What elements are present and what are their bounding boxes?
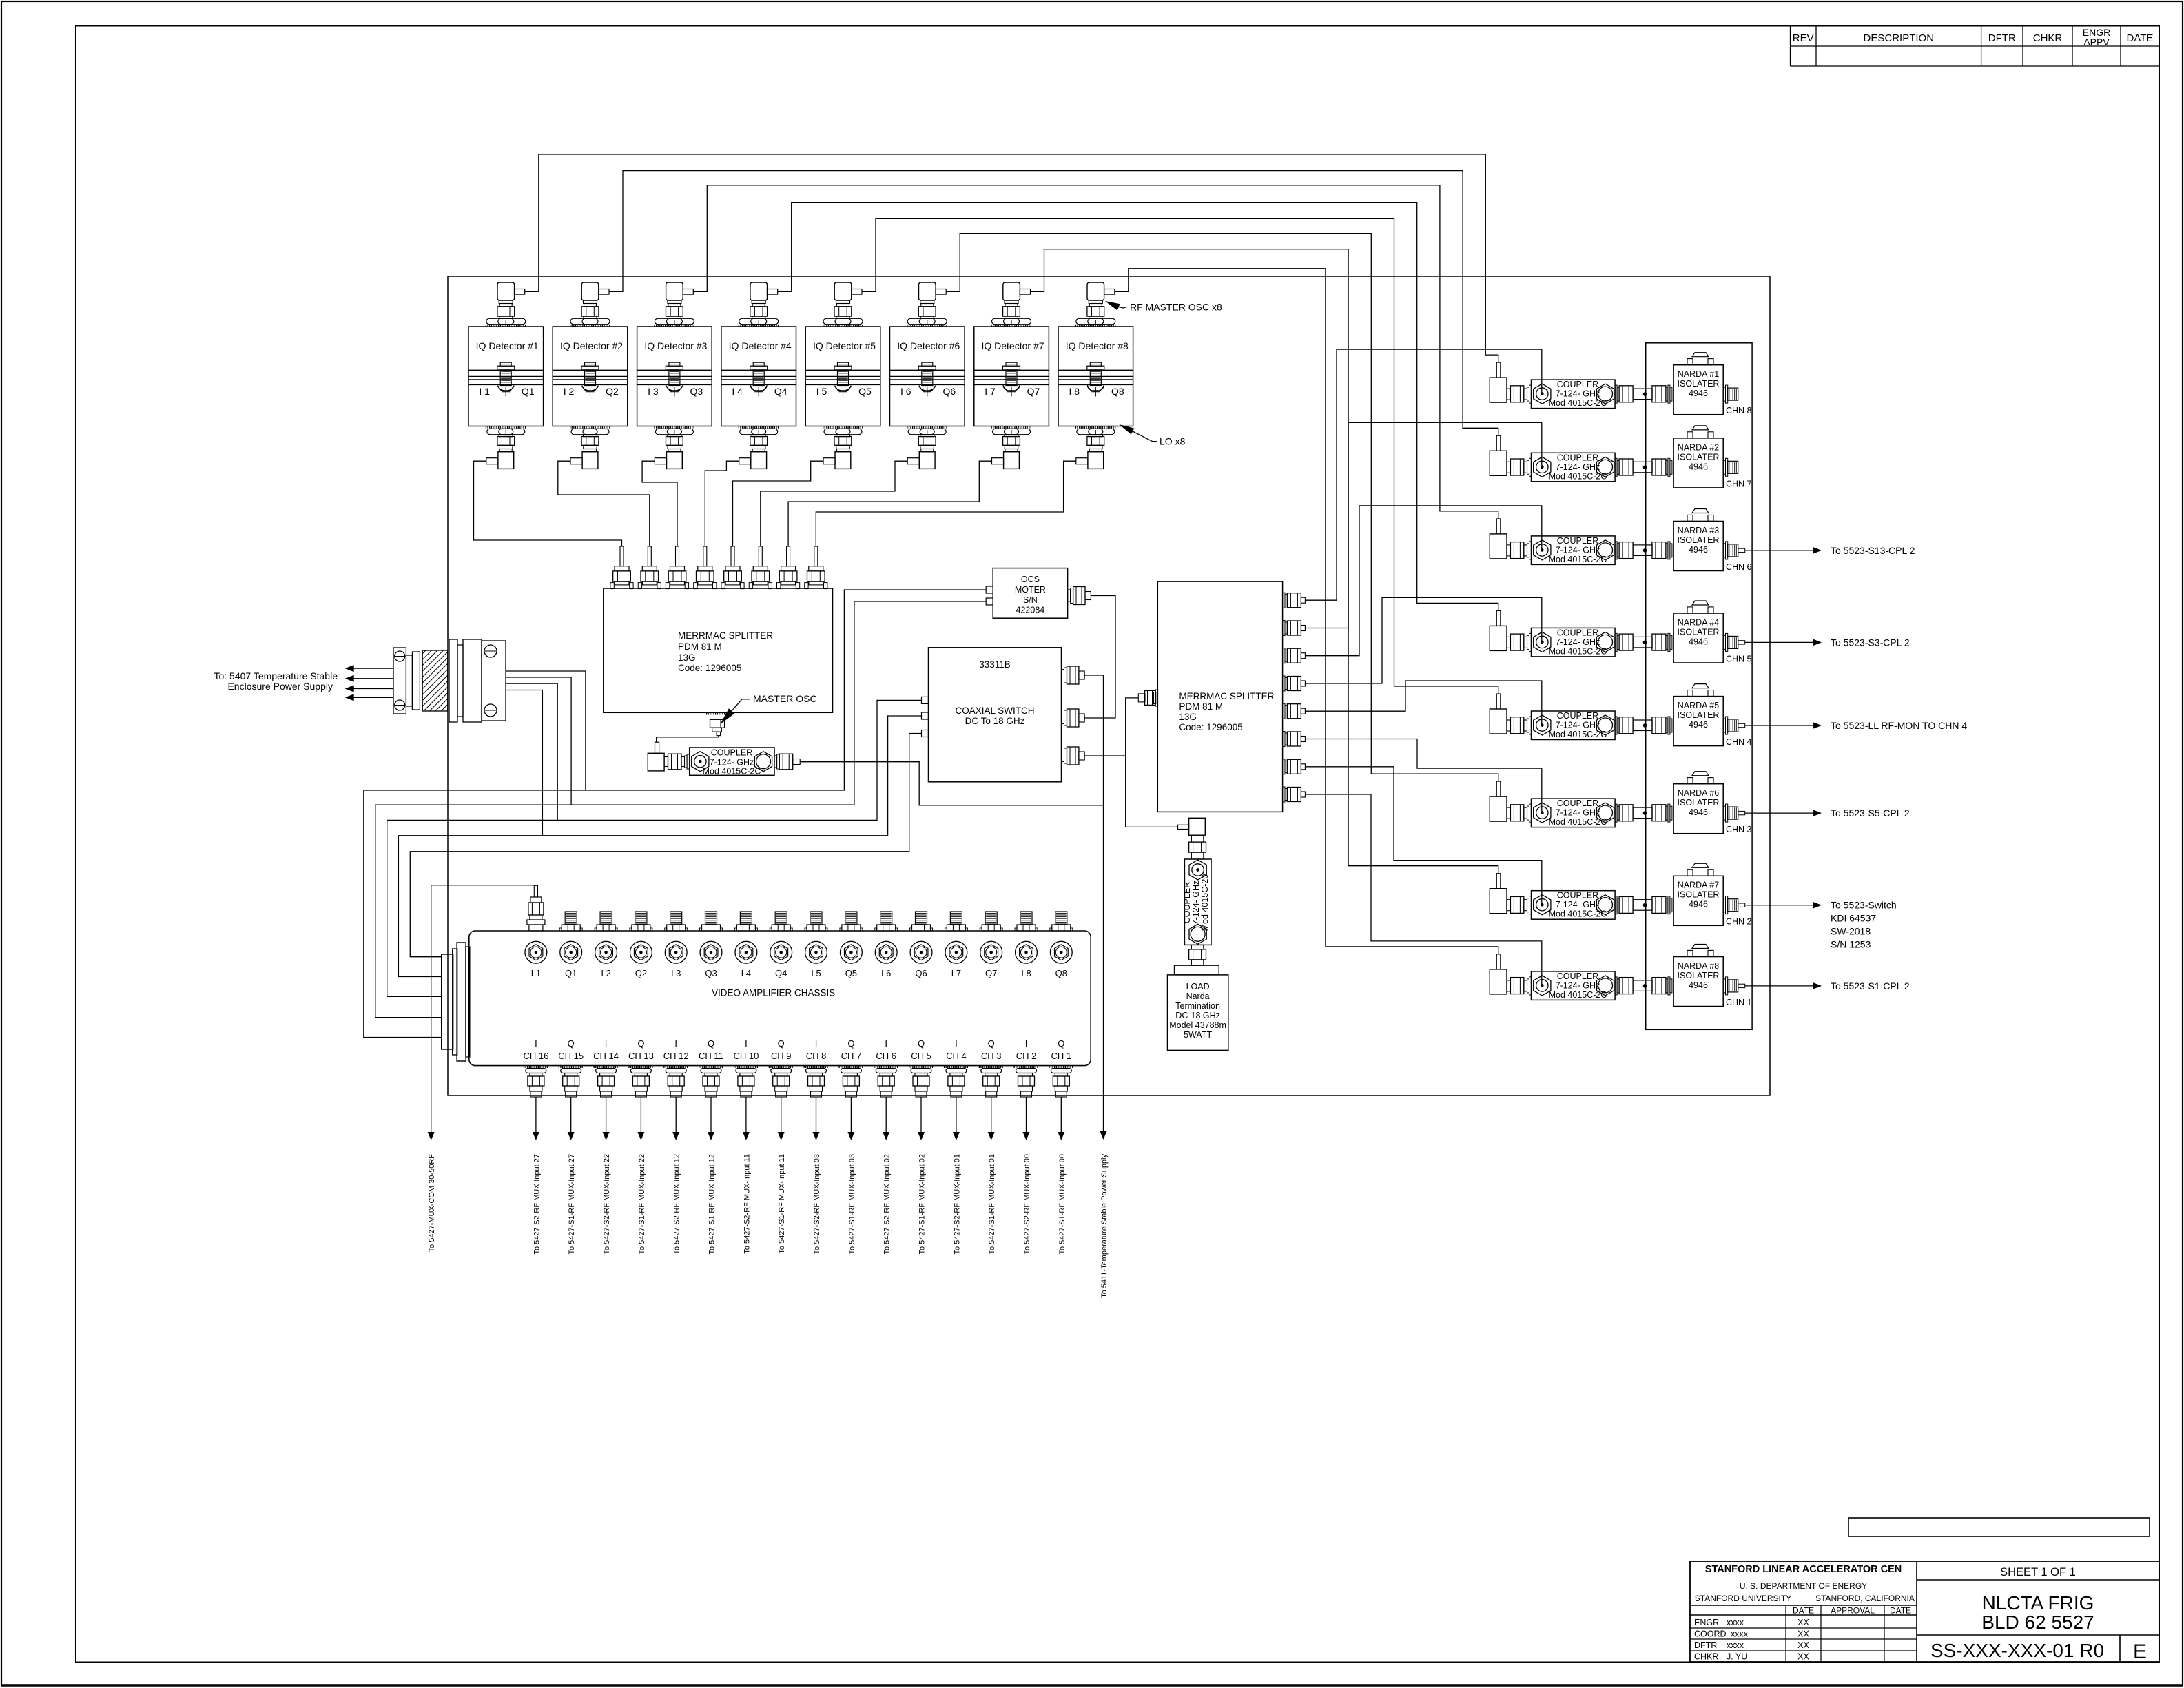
wire LO detector 5 to splitter input 5 [733, 461, 824, 546]
svg-text:NARDA #8: NARDA #8 [1678, 961, 1719, 971]
svg-text:Mod 4015C-2C: Mod 4015C-2C [1549, 471, 1607, 481]
IQ Detector #2 bottom LO connector [570, 426, 610, 429]
svg-text:PDM 81 M: PDM 81 M [1179, 701, 1223, 712]
IQ Detector #1 bottom LO connector [486, 426, 526, 429]
svg-text:COUPLER: COUPLER [1557, 971, 1598, 981]
wire chassis output to MUX arrow 9 [816, 1097, 817, 1132]
svg-text:7-124- GHz: 7-124- GHz [1191, 881, 1201, 925]
chassis bottom connector CH 16 [524, 1066, 548, 1068]
splitter input connector 1 [620, 546, 624, 566]
svg-text:5WATT: 5WATT [1184, 1030, 1212, 1040]
chassis BNC I 2 [595, 941, 617, 963]
IQ Detector #5 tuning bolt [838, 362, 849, 366]
svg-text:I 1: I 1 [479, 386, 490, 397]
IQ Detector #4 box [721, 327, 796, 426]
svg-text:Q6: Q6 [915, 968, 927, 978]
row 7 elbow connector [1496, 874, 1501, 889]
IQ Detector #2 tuning bolt [585, 362, 596, 366]
svg-text:CHN 2: CHN 2 [1726, 917, 1752, 927]
wire chassis output to MUX arrow 4 [640, 1097, 641, 1132]
wire I1 input to MUX COM arrow [431, 885, 536, 1132]
LO x8 callout [1120, 424, 1135, 434]
title block [1690, 1561, 2159, 1662]
svg-text:I: I [885, 1038, 887, 1049]
svg-text:MERRMAC SPLITTER: MERRMAC SPLITTER [1179, 691, 1274, 701]
svg-text:XX: XX [1797, 1640, 1809, 1650]
svg-text:7-124- GHz: 7-124- GHz [710, 758, 754, 768]
svg-text:I: I [955, 1038, 958, 1049]
svg-text:STANFORD, CALIFORNIA: STANFORD, CALIFORNIA [1815, 1594, 1915, 1603]
svg-text:S/N 1253: S/N 1253 [1831, 939, 1871, 950]
svg-text:COUPLER: COUPLER [1557, 711, 1598, 721]
5407 circular connector assembly [393, 648, 406, 714]
svg-text:To 5427-S2-RF MUX-Input 00: To 5427-S2-RF MUX-Input 00 [1023, 1154, 1031, 1255]
svg-text:IQ Detector #3: IQ Detector #3 [644, 340, 707, 351]
splitter input connector 3 [676, 546, 679, 566]
row 8 elbow connector [1496, 954, 1501, 969]
svg-text:7-124- GHz: 7-124- GHz [1556, 980, 1600, 990]
svg-text:I 6: I 6 [900, 386, 911, 397]
svg-text:DC-18 GHz: DC-18 GHz [1175, 1011, 1220, 1020]
svg-text:To 5427-S2-RF MUX-Input 27: To 5427-S2-RF MUX-Input 27 [533, 1154, 541, 1255]
svg-text:J. YU: J. YU [1727, 1652, 1747, 1662]
svg-text:To 5427-S2-RF MUX-Input 11: To 5427-S2-RF MUX-Input 11 [743, 1154, 751, 1254]
svg-text:MERRMAC SPLITTER: MERRMAC SPLITTER [678, 630, 773, 641]
svg-text:COUPLER: COUPLER [1557, 453, 1598, 462]
row 4 output wire and arrow [1738, 641, 1745, 644]
svg-text:7-124- GHz: 7-124- GHz [1556, 721, 1600, 730]
svg-text:VIDEO AMPLIFIER CHASSIS: VIDEO AMPLIFIER CHASSIS [712, 988, 835, 998]
svg-text:I 8: I 8 [1021, 968, 1031, 978]
svg-text:I: I [815, 1038, 818, 1049]
svg-text:CHN 3: CHN 3 [1726, 825, 1752, 834]
row 3 isolator output stub [1723, 544, 1725, 557]
chassis bottom connector CH 12 [663, 1066, 688, 1068]
monitor coupler body [1191, 835, 1203, 842]
NARDA #8 isolator [1673, 957, 1723, 1007]
svg-text:4946: 4946 [1689, 807, 1708, 817]
harness wire 2 [375, 601, 986, 1018]
svg-text:7-124- GHz: 7-124- GHz [1556, 637, 1600, 647]
svg-text:To 5427-S2-RF MUX-Input 03: To 5427-S2-RF MUX-Input 03 [813, 1154, 821, 1255]
chassis BNC Q2 [630, 941, 652, 963]
svg-text:SS-XXX-XXX-01 R0: SS-XXX-XXX-01 R0 [1930, 1640, 2104, 1661]
power connector wire 4 [506, 690, 542, 836]
svg-text:CHKR: CHKR [1694, 1652, 1718, 1662]
row 8 isolator output stub [1723, 979, 1725, 993]
svg-text:KDI 64537: KDI 64537 [1831, 913, 1876, 924]
svg-text:Q: Q [918, 1038, 925, 1049]
chassis bottom connector CH 13 [628, 1066, 653, 1068]
harness wire 4 [398, 716, 921, 977]
svg-text:Mod 4015C-2C: Mod 4015C-2C [1549, 646, 1607, 656]
svg-text:APPV: APPV [2083, 37, 2110, 48]
right splitter output connector 3 [1283, 648, 1285, 663]
svg-text:4946: 4946 [1689, 980, 1708, 990]
IQ Detector #3 box [637, 327, 712, 426]
svg-text:I 2: I 2 [601, 968, 610, 978]
wire LO detector 7 to splitter input 7 [788, 461, 991, 546]
svg-text:4946: 4946 [1689, 900, 1708, 909]
svg-text:LOAD: LOAD [1186, 982, 1210, 991]
svg-text:To 5427-S1-RF MUX-Input 02: To 5427-S1-RF MUX-Input 02 [918, 1154, 927, 1255]
wire master osc coupler output to junction [800, 762, 1103, 805]
svg-text:Mod 4015C-2C: Mod 4015C-2C [1549, 555, 1607, 564]
chassis BNC I 5 [805, 941, 827, 963]
chassis top connector 3 [600, 912, 612, 925]
svg-text:Narda: Narda [1186, 991, 1210, 1001]
narda isolator column box [1646, 343, 1752, 1030]
splitter master osc output connector [706, 713, 731, 715]
svg-text:DATE: DATE [1890, 1606, 1911, 1616]
right splitter output connector 8 [1283, 787, 1285, 802]
power supply arrow 4 [353, 697, 393, 698]
svg-text:COUPLER: COUPLER [1182, 882, 1192, 923]
svg-text:NARDA #3: NARDA #3 [1678, 526, 1719, 535]
svg-text:To 5427-S2-RF MUX-Input 22: To 5427-S2-RF MUX-Input 22 [603, 1154, 611, 1255]
IQ Detector #7 box [974, 327, 1049, 426]
chassis bottom connector CH 2 [1014, 1066, 1039, 1068]
wire chassis output to MUX arrow 6 [710, 1097, 712, 1132]
svg-text:CH 14: CH 14 [593, 1051, 619, 1061]
IQ Detector #8 box [1058, 327, 1133, 426]
svg-text:DC To 18 GHz: DC To 18 GHz [965, 716, 1025, 726]
chassis BNC Q4 [770, 941, 792, 963]
chassis bottom connector CH 8 [804, 1066, 829, 1068]
IQ Detector #7 top RF connector [1003, 282, 1020, 300]
svg-text:CH 3: CH 3 [981, 1051, 1002, 1061]
coax switch right connector 1 [1062, 670, 1064, 681]
row 4 isolator output stub [1723, 635, 1725, 649]
chassis top connector 16 [1055, 912, 1067, 925]
svg-text:CH 2: CH 2 [1016, 1051, 1037, 1061]
svg-text:Termination: Termination [1175, 1001, 1220, 1011]
chassis top connector 14 [985, 912, 997, 925]
svg-text:IQ Detector #6: IQ Detector #6 [897, 340, 960, 351]
svg-text:Q5: Q5 [858, 386, 872, 397]
svg-text:CHKR: CHKR [2033, 32, 2063, 44]
svg-text:Q: Q [637, 1038, 644, 1049]
svg-text:ENGR: ENGR [1694, 1618, 1719, 1627]
svg-text:To 5427-S2-RF MUX-Input 12: To 5427-S2-RF MUX-Input 12 [673, 1154, 681, 1255]
power connector wire 1 [506, 671, 586, 790]
wire LO detector 3 to splitter input 3 [642, 461, 677, 546]
row 1 isolator output stub [1723, 387, 1725, 401]
svg-text:I 3: I 3 [671, 968, 681, 978]
svg-text:Enclosure Power Supply: Enclosure Power Supply [227, 681, 333, 692]
svg-text:xxxx: xxxx [1727, 1618, 1744, 1627]
svg-text:To 5427-S1-RF MUX-Input 22: To 5427-S1-RF MUX-Input 22 [638, 1154, 646, 1255]
OCS MOTER left pin 2 [986, 598, 993, 605]
harness wire 1 [364, 590, 986, 1038]
svg-text:To 5411-Temperature Stable Pow: To 5411-Temperature Stable Power Supply [1100, 1154, 1109, 1298]
right splitter output connector 1 [1283, 593, 1285, 608]
chassis top connector 13 [950, 912, 962, 925]
svg-text:I: I [745, 1038, 748, 1049]
svg-text:LO x8: LO x8 [1160, 436, 1186, 447]
svg-text:4946: 4946 [1689, 462, 1708, 471]
svg-text:CH 15: CH 15 [558, 1051, 584, 1061]
right splitter output connector 5 [1283, 703, 1285, 719]
chassis side D connector [442, 954, 453, 1049]
svg-text:Q6: Q6 [942, 386, 956, 397]
svg-text:CH 1: CH 1 [1051, 1051, 1071, 1061]
svg-text:To 5523-Switch: To 5523-Switch [1831, 900, 1897, 911]
svg-text:CH 13: CH 13 [628, 1051, 654, 1061]
svg-text:STANFORD LINEAR ACCELERATOR CE: STANFORD LINEAR ACCELERATOR CEN [1705, 1564, 1902, 1575]
svg-text:DATE: DATE [1793, 1606, 1814, 1616]
svg-text:I 5: I 5 [816, 386, 827, 397]
wire splitter output 8 to coupler 8 input [1305, 794, 1541, 986]
chassis BNC I 3 [665, 941, 687, 963]
svg-text:DFTR: DFTR [1694, 1640, 1717, 1650]
row 6 elbow connector [1496, 781, 1501, 796]
chassis BNC Q6 [910, 941, 932, 963]
wire splitter output 7 to coupler 7 input [1305, 767, 1541, 905]
wire chassis output to MUX arrow 8 [781, 1097, 782, 1132]
svg-text:Mod 4015C-2C: Mod 4015C-2C [1549, 398, 1607, 408]
svg-text:To 5427-MUX-COM 30-50RF: To 5427-MUX-COM 30-50RF [428, 1154, 436, 1253]
IQ Detector #5 box [805, 327, 880, 426]
chassis top connector 4 [635, 912, 647, 925]
wire LO detector 2 to splitter input 2 [558, 461, 650, 546]
svg-text:Q1: Q1 [565, 968, 577, 978]
wire splitter output 5 to coupler 5 input [1305, 681, 1541, 725]
svg-text:DFTR: DFTR [1988, 32, 2016, 44]
COUPLER 7-124-GHz row 3 [1532, 536, 1616, 565]
svg-text:OCS: OCS [1021, 575, 1040, 584]
coax switch left pin 3 [922, 730, 929, 737]
COUPLER 7-124-GHz row 8 [1532, 971, 1616, 1000]
svg-text:CHN 8: CHN 8 [1726, 406, 1752, 415]
svg-text:CH 5: CH 5 [911, 1051, 931, 1061]
svg-text:To 5427-S1-RF MUX-Input 03: To 5427-S1-RF MUX-Input 03 [848, 1154, 856, 1255]
wire LO detector 4 to splitter input 4 [705, 461, 739, 546]
svg-text:S/N: S/N [1023, 595, 1038, 605]
svg-text:CH 9: CH 9 [771, 1051, 792, 1061]
wire chassis output to MUX arrow 15 [1026, 1097, 1027, 1132]
IQ Detector #7 bottom LO connector [991, 426, 1032, 429]
IQ Detector #5 top RF connector [834, 282, 852, 300]
svg-text:COUPLER: COUPLER [1557, 380, 1598, 389]
wire splitter output 2 to coupler 2 input [1305, 422, 1541, 628]
temperature stable enclosure boundary [448, 276, 1770, 1095]
svg-text:ISOLATER: ISOLATER [1678, 890, 1720, 900]
NARDA #4 isolator [1673, 613, 1723, 663]
svg-text:Q2: Q2 [606, 386, 619, 397]
chassis top connector 6 [705, 912, 717, 925]
svg-text:I 1: I 1 [531, 968, 541, 978]
revision table [1790, 26, 1791, 67]
svg-text:To 5427-S1-RF MUX-Input 11: To 5427-S1-RF MUX-Input 11 [778, 1154, 786, 1254]
power supply arrow 2 [353, 678, 393, 679]
chassis bottom connector CH 11 [699, 1066, 723, 1068]
chassis top connector 15 [1020, 912, 1032, 925]
coax switch left pin 1 [922, 697, 929, 703]
right splitter output connector 2 [1283, 621, 1285, 636]
svg-text:To 5427-S2-RF MUX-Input 01: To 5427-S2-RF MUX-Input 01 [953, 1154, 961, 1255]
wire LO detector 1 to splitter input 1 [474, 461, 622, 546]
svg-text:Mod 4015C-2C: Mod 4015C-2C [1549, 990, 1607, 1000]
COUPLER 7-124-GHz row 1 [1532, 380, 1616, 409]
svg-text:To 5523-S13-CPL 2: To 5523-S13-CPL 2 [1831, 545, 1915, 556]
svg-text:STANFORD UNIVERSITY: STANFORD UNIVERSITY [1695, 1594, 1791, 1603]
chassis top connector 2 [565, 912, 577, 925]
chassis bottom connector CH 6 [874, 1066, 898, 1068]
splitter input connector 6 [759, 546, 762, 566]
svg-text:E: E [2133, 1640, 2147, 1663]
approval table [1690, 1614, 1917, 1616]
wire chassis output to MUX arrow 11 [885, 1097, 887, 1132]
splitter input connector 2 [648, 546, 651, 566]
coax switch right connector 2 [1062, 712, 1064, 724]
harness wire 5 [410, 734, 921, 957]
svg-text:Q8: Q8 [1111, 386, 1124, 397]
IQ Detector #7 tuning bolt [1006, 362, 1017, 366]
svg-text:U. S. DEPARTMENT OF ENERGY: U. S. DEPARTMENT OF ENERGY [1740, 1581, 1867, 1591]
IQ Detector #3 top RF connector [666, 282, 683, 300]
svg-text:NARDA #2: NARDA #2 [1678, 442, 1719, 452]
svg-text:Q3: Q3 [690, 386, 703, 397]
svg-text:4946: 4946 [1689, 637, 1708, 646]
svg-text:ISOLATER: ISOLATER [1678, 535, 1720, 545]
IQ Detector #1 body split lines [468, 369, 544, 371]
row 2 coupler-isolator link [1615, 458, 1617, 476]
right splitter input connector [1138, 694, 1145, 702]
row 4 coupler-isolator link [1615, 633, 1617, 651]
NARDA #3 isolator [1673, 522, 1723, 571]
svg-text:XX: XX [1797, 1629, 1809, 1639]
svg-text:To 5427-S1-RF MUX-Input 00: To 5427-S1-RF MUX-Input 00 [1058, 1154, 1067, 1255]
master osc coupler box [690, 748, 774, 775]
row 3 coupler-isolator link [1615, 542, 1617, 559]
svg-text:PDM 81 M: PDM 81 M [678, 641, 722, 652]
svg-text:Q5: Q5 [845, 968, 857, 978]
row 5 elbow connector [1496, 694, 1501, 709]
svg-text:Q1: Q1 [522, 386, 535, 397]
svg-text:ISOLATER: ISOLATER [1678, 798, 1720, 807]
video amplifier chassis box [469, 931, 1091, 1066]
master osc coupler elbow connector [655, 742, 659, 753]
svg-text:4946: 4946 [1689, 389, 1708, 398]
master osc coupler output connector [774, 756, 777, 768]
row 7 output wire and arrow [1738, 903, 1745, 907]
row 5 output wire and arrow [1738, 723, 1745, 727]
svg-text:SW-2018: SW-2018 [1831, 926, 1871, 937]
row 2 elbow connector [1496, 435, 1501, 451]
To 5411 power supply arrow [1100, 1131, 1107, 1140]
IQ Detector #3 body split lines [637, 369, 712, 371]
wire OCS MOTER output to coax switch input 2 [1084, 596, 1115, 719]
svg-text:I: I [605, 1038, 608, 1049]
chassis bottom connector CH 7 [838, 1066, 863, 1068]
svg-text:SHEET 1 OF 1: SHEET 1 OF 1 [2000, 1566, 2076, 1578]
wire LO detector 8 to splitter input 8 [816, 461, 1076, 546]
svg-text:ISOLATER: ISOLATER [1678, 971, 1720, 980]
svg-text:422084: 422084 [1016, 606, 1045, 615]
svg-text:CHN 6: CHN 6 [1726, 562, 1752, 572]
svg-text:COORD: COORD [1694, 1629, 1727, 1639]
row 8 output wire and arrow [1738, 984, 1745, 987]
monitor coupler lower connector [1191, 945, 1203, 949]
coaxial switch 33311B box [929, 648, 1062, 782]
chassis I1 input connector with pin [534, 885, 537, 897]
svg-text:COUPLER: COUPLER [1557, 891, 1598, 900]
NARDA #5 isolator [1673, 697, 1723, 746]
svg-text:Mod 4015C-2C: Mod 4015C-2C [1549, 909, 1607, 919]
chassis top connector 12 [916, 912, 927, 925]
COUPLER 7-124-GHz row 4 [1532, 628, 1616, 657]
svg-text:I 8: I 8 [1069, 386, 1080, 397]
svg-text:IQ Detector #2: IQ Detector #2 [560, 340, 623, 351]
IQ Detector #1 top RF connector [497, 282, 515, 300]
row 3 elbow connector [1496, 519, 1501, 534]
IQ Detector #3 tuning bolt [669, 362, 680, 366]
svg-text:Code: 1296005: Code: 1296005 [1179, 722, 1242, 732]
svg-text:CHN 5: CHN 5 [1726, 654, 1752, 663]
svg-text:CH 7: CH 7 [841, 1051, 862, 1061]
harness wire 3 [387, 700, 922, 996]
IQ Detector #4 tuning bolt [753, 362, 764, 366]
chassis top connector 5 [670, 912, 682, 925]
monitor coupler elbow connector [1178, 825, 1189, 829]
row 7 coupler-isolator link [1615, 896, 1617, 914]
wire RF bus detector 4 to coupler row 4 [778, 203, 1498, 611]
coax switch left pin 2 [922, 712, 929, 719]
svg-text:CH 10: CH 10 [733, 1051, 759, 1061]
svg-text:REV: REV [1793, 32, 1814, 44]
chassis bottom connector CH 1 [1049, 1066, 1073, 1068]
wire chassis output to MUX arrow 7 [745, 1097, 747, 1132]
svg-text:COUPLER: COUPLER [1557, 628, 1598, 637]
svg-text:To 5427-S1-RF MUX-Input 01: To 5427-S1-RF MUX-Input 01 [988, 1154, 996, 1255]
chassis bottom connector CH 15 [559, 1066, 584, 1068]
svg-text:Q: Q [708, 1038, 714, 1049]
svg-text:CHN 1: CHN 1 [1726, 998, 1752, 1007]
svg-text:33311B: 33311B [979, 659, 1011, 670]
svg-text:CHN 7: CHN 7 [1726, 479, 1752, 488]
OCS MOTER left pin 1 [986, 586, 993, 593]
svg-text:Mod 4015C-20: Mod 4015C-20 [1200, 874, 1210, 932]
drawing number strip [1848, 1518, 2150, 1536]
IQ Detector #8 body split lines [1058, 369, 1133, 371]
row 8 coupler-isolator link [1615, 977, 1617, 995]
svg-text:IQ Detector #8: IQ Detector #8 [1066, 340, 1129, 351]
svg-text:ISOLATER: ISOLATER [1678, 627, 1720, 637]
wire RF bus detector 1 to coupler row 1 [525, 154, 1498, 362]
svg-text:IQ Detector #1: IQ Detector #1 [476, 340, 539, 351]
splitter input connector 4 [703, 546, 707, 566]
drawing number cell [1917, 1634, 2159, 1636]
power connector wire 3 [506, 683, 557, 820]
wire chassis output to MUX arrow 13 [956, 1097, 957, 1132]
svg-text:ISOLATER: ISOLATER [1678, 452, 1720, 462]
wire chassis output to MUX arrow 1 [535, 1097, 537, 1132]
IQ Detector #8 top RF connector [1087, 282, 1104, 300]
IQ Detector #6 tuning bolt [922, 362, 933, 366]
wire chassis output to MUX arrow 12 [920, 1097, 922, 1132]
wire master osc connector to coupler elbow [657, 736, 719, 743]
svg-text:ISOLATER: ISOLATER [1678, 379, 1720, 389]
IQ Detector #8 bottom LO connector [1075, 426, 1116, 429]
wire splitter output 4 to coupler 4 input [1305, 597, 1541, 683]
row 3 output wire and arrow [1738, 548, 1745, 552]
right splitter output connector 7 [1283, 759, 1285, 774]
NARDA #2 isolator [1673, 438, 1723, 488]
COUPLER 7-124-GHz row 5 [1532, 711, 1616, 740]
IQ Detector #7 body split lines [974, 369, 1049, 371]
OCS MOTER box [993, 568, 1067, 619]
